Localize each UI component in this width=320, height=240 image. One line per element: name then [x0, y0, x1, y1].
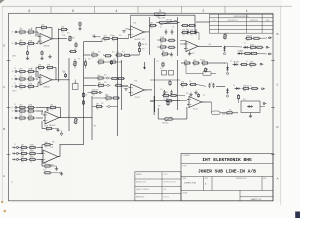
svg-text:TL072: TL072	[193, 109, 198, 111]
svg-text:4K7: 4K7	[21, 157, 24, 159]
svg-text:NE5532: NE5532	[44, 86, 50, 88]
svg-text:IHT ELEKTRONIK BHG: IHT ELEKTRONIK BHG	[202, 157, 252, 163]
svg-text:4148: 4148	[250, 45, 254, 47]
svg-text:NE5532: NE5532	[135, 39, 141, 41]
svg-text:4K7: 4K7	[21, 145, 24, 147]
svg-text:A: A	[276, 177, 278, 181]
svg-text:TL072: TL072	[135, 97, 140, 99]
svg-text:2: 2	[202, 9, 204, 13]
svg-text:SHEET 1 OF: SHEET 1 OF	[251, 199, 262, 201]
svg-text:1N4148: 1N4148	[243, 86, 249, 88]
svg-text:B: B	[276, 32, 278, 36]
svg-text:4K7: 4K7	[19, 108, 22, 110]
svg-text:3: 3	[159, 9, 161, 13]
svg-text:1N4148: 1N4148	[246, 36, 252, 38]
svg-text:JOKER .PCB: JOKER .PCB	[184, 183, 197, 185]
svg-text:A: A	[3, 174, 5, 178]
svg-text:4K7: 4K7	[98, 75, 101, 77]
svg-text:10K 1%: 10K 1%	[141, 44, 147, 46]
svg-text:4K7: 4K7	[96, 104, 99, 106]
svg-text:4K7: 4K7	[19, 84, 22, 86]
svg-text:5: 5	[72, 9, 74, 13]
svg-text:4K7: 4K7	[19, 115, 22, 117]
svg-text:4K7: 4K7	[19, 69, 22, 71]
svg-text:NE5532: NE5532	[44, 45, 50, 47]
svg-text:4K7: 4K7	[19, 76, 22, 78]
svg-text:6: 6	[28, 9, 30, 13]
svg-text:4K7: 4K7	[19, 105, 22, 107]
svg-text:4K7: 4K7	[166, 98, 169, 100]
svg-text:JOKER SUB LINE-IN A/B: JOKER SUB LINE-IN A/B	[198, 169, 256, 175]
svg-text:4K7: 4K7	[162, 51, 165, 53]
svg-text:4K7: 4K7	[98, 83, 101, 85]
svg-text:4148: 4148	[250, 62, 254, 64]
svg-text:4: 4	[115, 9, 117, 13]
svg-text:4K7: 4K7	[104, 36, 107, 38]
svg-text:B: B	[3, 127, 5, 131]
svg-text:1: 1	[246, 9, 248, 13]
svg-text:NE5532: NE5532	[49, 125, 55, 127]
svg-text:4K7: 4K7	[150, 23, 153, 25]
